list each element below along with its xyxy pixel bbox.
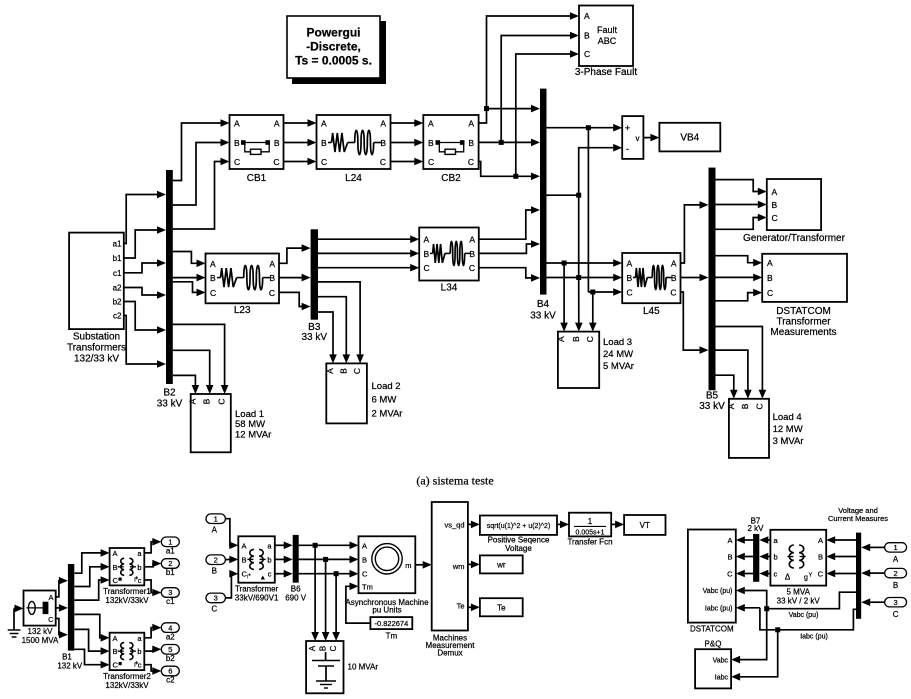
svg-text:C: C	[754, 403, 764, 409]
svg-text:Vabc (pu): Vabc (pu)	[789, 612, 819, 619]
svg-text:Iabc (pu): Iabc (pu)	[705, 606, 733, 613]
svg-text:DSTATCOM: DSTATCOM	[690, 625, 734, 634]
svg-text:A: A	[469, 235, 475, 245]
svg-text:Y: Y	[809, 573, 813, 579]
svg-text:Voltage: Voltage	[505, 544, 532, 553]
svg-text:132kV/33kV: 132kV/33kV	[105, 596, 149, 605]
svg-text:P&Q: P&Q	[705, 640, 722, 649]
svg-text:b: b	[137, 563, 141, 572]
svg-text:Te: Te	[497, 604, 506, 613]
svg-text:Transformer: Transformer	[235, 585, 279, 594]
svg-text:Transformers: Transformers	[67, 343, 126, 354]
svg-text:Measurements: Measurements	[770, 327, 836, 338]
svg-text:33 kV: 33 kV	[530, 311, 556, 322]
svg-text:A: A	[325, 368, 335, 374]
svg-text:Vabc: Vabc	[713, 657, 729, 664]
svg-text:vs_qd: vs_qd	[444, 521, 464, 530]
svg-text:B: B	[210, 273, 216, 283]
svg-text:-0.822674: -0.822674	[375, 619, 409, 628]
svg-text:(a) sistema teste: (a) sistema teste	[416, 474, 493, 488]
svg-text:a1: a1	[166, 547, 175, 556]
svg-text:1500 MVA: 1500 MVA	[22, 636, 59, 645]
svg-text:1: 1	[894, 543, 898, 552]
svg-text:1: 1	[214, 514, 218, 523]
svg-text:C: C	[234, 157, 240, 167]
svg-text:B1: B1	[62, 653, 72, 662]
svg-text:-: -	[626, 144, 629, 154]
svg-text:A: A	[274, 119, 280, 129]
svg-text:C: C	[380, 157, 386, 167]
svg-text:B: B	[113, 647, 118, 656]
svg-text:3-Phase Fault: 3-Phase Fault	[575, 67, 637, 78]
svg-text:C: C	[469, 263, 475, 273]
svg-text:B: B	[113, 563, 118, 572]
svg-text:A: A	[113, 634, 118, 643]
svg-text:A: A	[468, 119, 474, 129]
svg-text:a2: a2	[113, 284, 122, 293]
svg-text:132/33 kV: 132/33 kV	[74, 354, 119, 365]
svg-text:C: C	[269, 288, 275, 298]
svg-text:3: 3	[214, 594, 218, 603]
svg-text:A: A	[242, 541, 247, 550]
svg-text:b2: b2	[113, 298, 122, 307]
svg-text:Transformer2: Transformer2	[103, 672, 151, 681]
svg-text:6: 6	[168, 667, 172, 676]
svg-text:33 kV: 33 kV	[699, 401, 725, 412]
svg-text:Tm: Tm	[362, 582, 373, 591]
svg-text:Tm: Tm	[386, 632, 398, 641]
svg-text:C: C	[727, 570, 733, 579]
svg-text:C: C	[113, 661, 119, 670]
svg-text:C: C	[627, 288, 633, 298]
svg-text:c2: c2	[166, 676, 175, 685]
svg-text:2: 2	[894, 569, 898, 578]
svg-text:2: 2	[168, 559, 172, 568]
svg-text:A: A	[428, 119, 434, 129]
svg-text:A: A	[269, 259, 275, 269]
svg-text:B: B	[818, 553, 823, 562]
svg-text:A: A	[362, 541, 367, 550]
svg-text:B: B	[202, 398, 212, 404]
svg-text:pu Units: pu Units	[372, 606, 401, 615]
svg-text:B: B	[893, 581, 898, 590]
svg-text:B: B	[424, 249, 430, 259]
svg-text:b: b	[267, 555, 271, 564]
svg-text:v: v	[636, 134, 640, 143]
svg-text:A: A	[308, 645, 317, 651]
svg-text:C: C	[217, 398, 227, 404]
svg-text:B: B	[319, 646, 328, 651]
svg-text:3: 3	[894, 598, 898, 607]
svg-text:C: C	[210, 288, 216, 298]
svg-text:33 kV: 33 kV	[157, 399, 183, 410]
svg-text:A: A	[893, 555, 899, 564]
svg-text:VT: VT	[640, 521, 650, 530]
svg-text:A: A	[424, 235, 430, 245]
svg-text:B: B	[740, 403, 750, 409]
svg-text:Iabc (pu): Iabc (pu)	[800, 634, 828, 641]
svg-text:C: C	[893, 610, 899, 619]
svg-text:B: B	[468, 138, 474, 148]
svg-text:c1: c1	[113, 269, 122, 278]
svg-text:10 MVAr: 10 MVAr	[348, 663, 379, 672]
svg-text:B: B	[338, 368, 348, 374]
svg-text:Transformer1: Transformer1	[103, 587, 151, 596]
svg-text:690 V: 690 V	[285, 594, 307, 603]
svg-text:C: C	[362, 570, 368, 579]
svg-text:+: +	[625, 123, 630, 133]
svg-text:24 MW: 24 MW	[603, 349, 633, 360]
svg-text:VB4: VB4	[680, 133, 699, 144]
svg-text:6 MW: 6 MW	[372, 395, 397, 406]
svg-text:A: A	[212, 525, 218, 534]
svg-text:Load 3: Load 3	[603, 337, 632, 348]
svg-text:B: B	[767, 273, 773, 283]
svg-text:Iabc: Iabc	[715, 675, 729, 682]
svg-text:3: 3	[168, 588, 172, 597]
svg-text:CB2: CB2	[441, 173, 461, 184]
svg-text:b2: b2	[166, 654, 175, 663]
svg-text:sqrt(u(1)^2 + u(2)^2): sqrt(u(1)^2 + u(2)^2)	[487, 523, 551, 530]
svg-text:C: C	[273, 157, 279, 167]
svg-text:Vabc (pu): Vabc (pu)	[703, 588, 733, 595]
svg-text:A: A	[818, 536, 823, 545]
svg-text:B6: B6	[291, 585, 301, 594]
svg-text:c2: c2	[113, 312, 122, 321]
svg-text:b: b	[137, 647, 141, 656]
svg-text:A: A	[726, 403, 736, 409]
svg-text:Powergui: Powergui	[306, 26, 360, 40]
svg-text:B5: B5	[706, 391, 719, 402]
svg-text:5 MVA: 5 MVA	[786, 588, 810, 597]
svg-text:58 MW: 58 MW	[235, 419, 265, 430]
svg-text:↱: ↱	[246, 573, 252, 581]
svg-text:0.005s+1: 0.005s+1	[576, 530, 605, 537]
svg-text:1: 1	[168, 538, 172, 547]
svg-text:C: C	[424, 263, 430, 273]
svg-text:132 kV: 132 kV	[28, 627, 54, 636]
svg-text:B: B	[321, 138, 327, 148]
svg-text:12 MW: 12 MW	[773, 424, 803, 435]
svg-text:5 MVAr: 5 MVAr	[603, 361, 634, 372]
svg-text:C: C	[670, 288, 676, 298]
svg-text:A: A	[187, 398, 197, 404]
svg-text:L24: L24	[345, 173, 362, 184]
svg-text:wm: wm	[452, 562, 465, 571]
svg-text:33kV/690V1: 33kV/690V1	[235, 594, 279, 603]
svg-text:3 MVAr: 3 MVAr	[773, 436, 804, 447]
svg-text:A: A	[627, 259, 633, 269]
svg-text:wr: wr	[496, 561, 506, 570]
svg-text:Δ: Δ	[785, 573, 791, 582]
svg-text:C: C	[48, 615, 54, 624]
svg-text:B: B	[772, 200, 778, 210]
svg-text:Fault: Fault	[597, 25, 618, 35]
svg-text:A: A	[727, 536, 732, 545]
svg-text:5: 5	[168, 645, 172, 654]
svg-text:4: 4	[168, 623, 172, 632]
svg-text:132kV/33kV: 132kV/33kV	[105, 681, 149, 690]
svg-text:↱: ↱	[133, 576, 139, 584]
svg-text:Current Measures: Current Measures	[828, 514, 888, 523]
svg-text:Transformer: Transformer	[776, 317, 831, 328]
svg-text:B: B	[362, 555, 367, 564]
svg-text:Load 2: Load 2	[372, 381, 401, 392]
svg-text:C: C	[585, 336, 595, 342]
svg-text:c1: c1	[166, 597, 175, 606]
svg-text:L34: L34	[441, 283, 458, 294]
svg-text:A: A	[321, 119, 327, 129]
svg-text:A: A	[772, 187, 778, 197]
svg-text:-Discrete,: -Discrete,	[306, 40, 361, 54]
svg-text:Load 4: Load 4	[773, 412, 802, 423]
svg-text:L45: L45	[643, 306, 660, 317]
svg-text:A: A	[113, 549, 118, 558]
svg-text:a2: a2	[166, 632, 175, 641]
svg-text:C: C	[352, 368, 362, 374]
svg-text:33 kV / 2 kV: 33 kV / 2 kV	[777, 597, 821, 606]
svg-text:g: g	[804, 575, 808, 582]
svg-text:C: C	[767, 288, 773, 298]
svg-text:B: B	[584, 31, 590, 41]
svg-text:Generator/Transformer: Generator/Transformer	[743, 233, 846, 244]
svg-text:DSTATCOM: DSTATCOM	[776, 306, 831, 317]
svg-text:B: B	[428, 138, 434, 148]
svg-text:c: c	[268, 570, 272, 579]
svg-text:A: A	[671, 259, 677, 269]
svg-text:C: C	[211, 605, 217, 614]
svg-text:2: 2	[214, 555, 218, 564]
svg-text:A: A	[234, 119, 240, 129]
svg-text:m: m	[405, 561, 411, 570]
svg-text:C: C	[584, 49, 590, 59]
svg-text:A: A	[48, 593, 53, 602]
svg-text:132 kV: 132 kV	[57, 662, 83, 671]
svg-text:B: B	[242, 555, 247, 564]
svg-text:Demux: Demux	[437, 649, 462, 658]
svg-text:C: C	[772, 213, 778, 223]
svg-text:C: C	[321, 157, 327, 167]
svg-text:A: A	[584, 11, 590, 21]
svg-text:Substation: Substation	[73, 332, 120, 343]
svg-text:a1: a1	[113, 240, 122, 249]
svg-text:↱: ↱	[133, 661, 139, 669]
svg-text:C: C	[468, 157, 474, 167]
svg-text:c: c	[774, 570, 778, 579]
svg-text:Ts = 0.0005 s.: Ts = 0.0005 s.	[295, 54, 372, 68]
svg-text:C: C	[818, 570, 824, 579]
svg-text:C: C	[428, 157, 434, 167]
svg-text:2 MVAr: 2 MVAr	[372, 409, 403, 420]
svg-text:33 kV: 33 kV	[302, 332, 328, 343]
svg-text:B: B	[212, 566, 217, 575]
svg-text:A: A	[210, 259, 216, 269]
svg-text:C: C	[113, 576, 119, 585]
svg-text:B: B	[627, 273, 633, 283]
svg-text:ABC: ABC	[598, 36, 617, 46]
svg-text:B: B	[274, 138, 280, 148]
svg-text:CB1: CB1	[247, 173, 267, 184]
svg-text:A: A	[556, 336, 566, 342]
svg-text:A: A	[380, 119, 386, 129]
svg-text:b1: b1	[113, 254, 122, 263]
svg-text:B: B	[234, 138, 240, 148]
svg-text:B2: B2	[163, 388, 176, 399]
svg-text:B: B	[727, 553, 732, 562]
svg-text:12 MVAr: 12 MVAr	[235, 430, 271, 441]
svg-text:B: B	[571, 336, 581, 342]
svg-text:b1: b1	[166, 568, 175, 577]
svg-text:L23: L23	[234, 305, 251, 316]
svg-text:Transfer Fcn: Transfer Fcn	[567, 538, 612, 547]
svg-text:A: A	[767, 258, 773, 268]
svg-text:1: 1	[588, 517, 593, 526]
svg-text:Te: Te	[457, 601, 465, 610]
svg-text:2 kV: 2 kV	[747, 524, 764, 533]
svg-text:B4: B4	[537, 299, 550, 310]
svg-text:C: C	[329, 645, 338, 651]
svg-text:b: b	[774, 553, 778, 562]
